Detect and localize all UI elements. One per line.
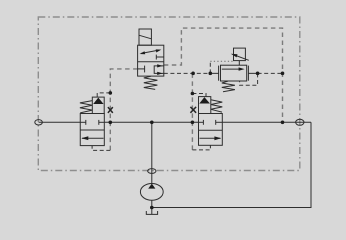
valve V3: position divider [199, 129, 223, 131]
wire: pump riser from main rail down to pump [151, 122, 153, 184]
junction: relief sense tap [209, 72, 213, 76]
drain line: black dashed under valve V2 [92, 149, 110, 151]
valve V1: upper square blocked port (bar and stub) [155, 55, 157, 60]
valve V3: spring (right of poppet box) [211, 100, 223, 112]
valve V2: poppet (filled triangle) [93, 98, 103, 104]
tank symbol [146, 211, 157, 214]
junction: V3 pilot corner [191, 92, 195, 96]
pilot line: black dashed from relief output to gray column [258, 72, 283, 74]
relief valve RV1: spring below [222, 81, 235, 92]
relief valve RV1: right side bracket [247, 66, 249, 81]
valve V3: poppet box [199, 97, 211, 114]
node X label of valve V2 [108, 107, 113, 113]
junction: V3 pilot / main rail [191, 121, 195, 125]
valve V2: poppet box [92, 97, 104, 113]
valve V1: lower square blocked left port [138, 68, 145, 70]
junction: pump outlet / return line [150, 206, 154, 210]
enclosure boundary (dash-dot manifold outline) [38, 17, 300, 171]
pump P1: circle [140, 184, 163, 201]
valve V3: lower square flow arrow pointing right [200, 137, 221, 139]
drain line: black dashed from node at 257.6 down and left under relief valve [240, 73, 258, 85]
valve V3: poppet (filled triangle) [199, 97, 210, 103]
valve V1: return spring below [144, 76, 158, 89]
pilot line: black dashed from node to poppet of valve V2 [97, 93, 110, 97]
relief valve RV1: pilot head box [234, 48, 246, 61]
relief valve RV1: internal flow arrow [222, 68, 242, 70]
junction: V2 pilot / main rail [109, 121, 113, 125]
valve V2: body (left cartridge valve) [80, 114, 104, 146]
pilot line: gray dashed column of valve V3 (x=192.4) [191, 73, 193, 150]
pilot line: gray dashed from valve V1 left port to node X1 column [110, 69, 137, 150]
valve V3: body (center cartridge valve) [199, 114, 223, 146]
port: left boundary port ellipse [35, 120, 43, 125]
valve V1: position divider [138, 61, 164, 63]
valve V1: solenoid diagonal line [139, 35, 151, 39]
pilot line: gray dashed loop from V1 top-right port around to main rail [164, 28, 283, 122]
wire: solid stub into relief valve left port [210, 72, 218, 74]
valve V1: directional 3/2 valve body [138, 45, 164, 76]
port: right boundary port ellipse [296, 119, 304, 125]
wire: main rail right segment (V3 to port) [222, 121, 311, 123]
relief valve RV1: adjustment arrow across pilot head [234, 55, 249, 60]
valve V3: bottom drain stub [209, 145, 211, 148]
valve V2: upper square blocked ports [80, 121, 86, 123]
drain line: black dashed under valve V3 [192, 148, 210, 150]
wire: main rail center segment (V2 to V3) [104, 121, 198, 123]
junction: V2 pilot corner [109, 91, 113, 95]
valve V1: upper square flow arrow (double headed diagonal) [141, 50, 159, 53]
wire: pump outlet down to tank junction [151, 200, 153, 214]
wire: main pressure rail y=122.3 left segment (port P to valve V2) [39, 121, 81, 123]
valve V1: solenoid box with diagonal (proportional) [139, 29, 151, 45]
pump P1: flow direction triangle [148, 184, 155, 189]
relief valve RV1: left side bracket [218, 66, 220, 81]
pilot line: relief valve remote sense riser [209, 61, 211, 73]
valve V2: spring (left of poppet box) [80, 101, 92, 113]
pilot line: black dashed from node to poppet of valve V3 [192, 94, 206, 97]
junction: pump riser / main rail [150, 121, 154, 125]
valve V1: lower square U bracket connecting right ports [154, 66, 164, 74]
junction: drain rail / V3 pilot column [191, 72, 195, 76]
port: pump suction port ellipse on bottom boundary [148, 169, 156, 174]
node X label of valve V3 [190, 107, 196, 113]
relief valve RV1: pilot head stub to square [238, 61, 240, 66]
wire: return line from right port down and left to tank junction [152, 122, 311, 207]
relief valve RV1: main square [221, 65, 247, 81]
junction: gray loop / drain rail [281, 72, 285, 76]
valve V3: upper square blocked ports [199, 121, 204, 123]
junction: relief drain tap [256, 72, 260, 76]
wire: solid stub from relief valve right port [248, 72, 257, 74]
pilot line: dotted line to relief pilot head [210, 60, 233, 62]
valve V2: bottom drain stub [91, 146, 93, 149]
valve V2: position divider [80, 129, 104, 131]
pilot/drain line: black dashed rail y=73.35 from V1 to relief valve [164, 72, 211, 74]
junction: gray loop / main rail [281, 121, 285, 125]
valve V2: lower square flow arrow pointing left [82, 137, 104, 139]
